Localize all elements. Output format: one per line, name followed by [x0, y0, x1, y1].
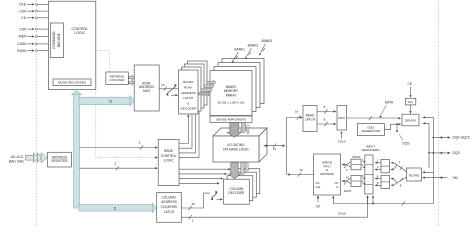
input pin CAS# — [17, 42, 48, 46]
memory bank label BANK1 — [232, 48, 245, 63]
svg-text:(8,192 x 1,024 x 16): (8,192 x 1,024 x 16) — [218, 101, 245, 105]
dotted control line to refresh counter — [96, 51, 110, 72]
command decode block — [50, 23, 63, 58]
pad DM — [422, 176, 458, 180]
svg-text:CONTROL: CONTROL — [161, 154, 177, 158]
mask wire to write fifo — [342, 155, 361, 172]
svg-text:BANK1: BANK1 — [234, 48, 245, 52]
write fifo dqs in arrow — [332, 196, 335, 204]
svg-text:BANK0: BANK0 — [183, 80, 193, 84]
svg-text:1: 1 — [192, 219, 194, 223]
input pin CK — [21, 16, 48, 20]
svg-text:ADDRESS: ADDRESS — [181, 91, 196, 95]
svg-text:DLL: DLL — [408, 100, 414, 104]
dqs generator to drvrs wire — [384, 123, 401, 130]
svg-text:BANK2: BANK2 — [248, 44, 259, 48]
address input fat arrow — [26, 153, 48, 163]
input pin RAS# — [17, 49, 48, 53]
svg-text:GENERATOR: GENERATOR — [361, 129, 381, 133]
write latch box upper — [351, 159, 361, 170]
svg-text:DECODER: DECODER — [228, 191, 245, 195]
bank0 row-address latch and decoder stack — [179, 61, 208, 114]
svg-text:16: 16 — [295, 110, 299, 114]
input registers stack — [365, 155, 373, 194]
svg-text:REGISTER: REGISTER — [51, 159, 68, 163]
bank0 memory array stack — [210, 59, 264, 116]
input latch box lower — [381, 175, 390, 188]
input pin WE# — [19, 35, 49, 39]
svg-text:MUX: MUX — [143, 89, 151, 93]
pad DQS — [429, 151, 460, 155]
io gating to read latch wire 16 — [264, 110, 303, 151]
input register right wires — [375, 159, 381, 187]
svg-text:LOGIC: LOGIC — [75, 31, 86, 35]
ck input to write fifo — [316, 196, 321, 209]
svg-text:A0–A12,: A0–A12, — [11, 155, 24, 159]
svg-text:2: 2 — [115, 162, 117, 166]
column address counter latch block — [157, 193, 182, 223]
dqs branch to input path — [396, 123, 410, 145]
teal bus branch to row address mux — [79, 96, 134, 107]
dll block — [405, 98, 416, 105]
svg-text:BANK: BANK — [164, 149, 174, 153]
input register clock arrows — [366, 195, 374, 203]
drvrs block — [402, 114, 419, 126]
ck input label — [408, 82, 413, 98]
svg-text:16: 16 — [346, 175, 350, 179]
svg-text:REGISTERS: REGISTERS — [362, 148, 380, 152]
control logic block — [48, 1, 95, 89]
svg-text:DQ0–DQ15: DQ0–DQ15 — [453, 136, 470, 140]
dqs generator block — [357, 124, 384, 136]
bank select wire 2 to column decoder stack — [179, 177, 223, 179]
svg-text:CS#: CS# — [19, 27, 26, 31]
rcvrs block — [407, 168, 422, 181]
row address mux block — [134, 65, 159, 111]
refresh counter block — [106, 72, 129, 84]
svg-text:BANK3: BANK3 — [262, 39, 273, 43]
dll to drvrs arrow — [409, 105, 411, 114]
left chip-boundary dashed pin line — [35, 0, 37, 227]
svg-text:11: 11 — [113, 206, 117, 210]
svg-text:Out: Out — [316, 185, 321, 189]
bank control logic block — [158, 140, 179, 186]
write latch box lower — [351, 176, 361, 187]
svg-text:MODE REGISTERS: MODE REGISTERS — [58, 81, 86, 85]
bank select wire 0 to column decoder stack — [179, 168, 231, 170]
sense amplifiers block — [210, 116, 252, 122]
write fifo and drivers block — [314, 154, 341, 195]
svg-text:DRVRS: DRVRS — [405, 119, 416, 123]
drvrs output stub to dq pads — [423, 116, 434, 137]
input registers left wires — [362, 158, 365, 185]
teal bus arrow into mode registers — [72, 91, 82, 95]
svg-text:LATCH: LATCH — [164, 210, 175, 214]
svg-text:DQS: DQS — [453, 151, 461, 155]
read latch to mux wires 8 8 — [317, 105, 336, 126]
bank select wire 1 to column decoder stack — [179, 173, 227, 175]
svg-text:LATCH: LATCH — [305, 118, 316, 122]
teal address bus vertical — [73, 94, 79, 209]
svg-text:COMMAND: COMMAND — [52, 31, 56, 49]
svg-text:LOGIC: LOGIC — [164, 159, 175, 163]
svg-text:COL0: COL0 — [338, 140, 346, 144]
svg-text:COL0: COL0 — [338, 211, 346, 215]
dq vertical line to rcvrs — [422, 137, 434, 204]
svg-text:DM MASK LOGIC: DM MASK LOGIC — [223, 147, 249, 151]
dotted control line to bank control logic — [96, 90, 158, 159]
svg-text:ARRAY: ARRAY — [226, 94, 238, 98]
input latch box upper — [381, 160, 390, 173]
mux block — [337, 106, 347, 131]
right chip-boundary dashed pin line — [438, 0, 440, 227]
svg-text:COLUMN-: COLUMN- — [162, 195, 177, 199]
column decoder stack — [224, 169, 260, 205]
sense amps to io gating gray arrows — [227, 122, 250, 137]
mode registers block — [53, 79, 91, 86]
refresh counter to row mux arrows — [129, 75, 135, 85]
bank address wire 2 upper — [80, 141, 158, 150]
bank select wire 0 to row latch stack — [179, 114, 190, 143]
svg-text:COUNTER/: COUNTER/ — [161, 205, 178, 209]
address input label A0-A12 BA0 BA1 — [9, 155, 24, 164]
latch to memory array gray arrows — [198, 80, 216, 96]
memory bank label BANK2 — [245, 44, 258, 59]
bank select wire 2 to row latch stack — [179, 108, 196, 153]
input pin CK# — [19, 9, 48, 13]
svg-text:in: in — [336, 185, 339, 189]
bank select wire 3 to row latch stack — [179, 105, 199, 158]
mux col0 select stub — [338, 131, 346, 144]
svg-text:CAS#: CAS# — [17, 42, 26, 46]
svg-text:DATA: DATA — [385, 100, 394, 104]
svg-text:CKE: CKE — [19, 3, 27, 7]
io gating dm mask logic block — [213, 128, 267, 162]
svg-text:10: 10 — [192, 202, 196, 206]
write fifo to io gating wire 16 — [287, 146, 314, 177]
svg-text:WE#: WE# — [19, 35, 26, 39]
svg-text:RCVRS: RCVRS — [409, 173, 420, 177]
pad DQ0-DQ15 — [433, 136, 470, 140]
svg-text:2: 2 — [139, 141, 141, 145]
input registers label — [362, 144, 380, 152]
svg-text:DECODE: DECODE — [57, 32, 61, 47]
address register block — [48, 152, 72, 167]
svg-text:COUNTER: COUNTER — [109, 78, 125, 82]
svg-text:BA0, BA1: BA0, BA1 — [9, 159, 24, 163]
svg-text:RAS#: RAS# — [17, 49, 26, 53]
svg-text:CK#: CK# — [19, 9, 26, 13]
svg-text:BANK0: BANK0 — [226, 85, 237, 89]
memory bank label BANK3 — [259, 39, 272, 55]
svg-text:MEMORY: MEMORY — [224, 89, 239, 93]
rcvrs to lower latch wires — [391, 177, 407, 188]
bank select wire 1 to row latch stack — [179, 111, 192, 148]
svg-text:CK: CK — [21, 16, 26, 20]
read latch block — [303, 106, 317, 132]
svg-text:ADDRESS: ADDRESS — [161, 200, 176, 204]
svg-text:DECODER: DECODER — [181, 107, 197, 111]
row mux to latch wire 13 — [159, 83, 178, 97]
svg-text:DATA: DATA — [344, 189, 352, 193]
bank address wire 2 lower — [80, 162, 158, 171]
svg-text:16: 16 — [300, 168, 304, 172]
svg-text:13: 13 — [161, 83, 165, 87]
bank select wire 3 to column decoder stack — [179, 182, 220, 184]
svg-text:MASK: MASK — [352, 155, 361, 159]
data wire to write fifo — [342, 175, 351, 193]
svg-text:13: 13 — [109, 100, 113, 104]
svg-text:SENSE AMPLIFIERS: SENSE AMPLIFIERS — [216, 118, 246, 122]
svg-text:16: 16 — [273, 147, 277, 151]
svg-text:DM: DM — [453, 176, 458, 180]
svg-text:LATCH: LATCH — [183, 96, 193, 100]
rcvrs to upper latch wires — [391, 160, 407, 172]
svg-text:ROW-: ROW- — [184, 86, 193, 90]
svg-text:MUX: MUX — [338, 116, 345, 120]
dqs clock line bottom — [333, 201, 433, 205]
drvrs output stub to dqs pad — [423, 122, 429, 153]
mux to drvrs data wire — [347, 100, 402, 120]
svg-text:DRIVERS: DRIVERS — [320, 172, 334, 176]
io gating to column decoder gray arrows — [229, 162, 250, 178]
column latch to column decoder wire 10 — [181, 191, 223, 210]
col0 wire from column latch — [181, 196, 367, 223]
dqs vertical line to rcvrs — [428, 152, 430, 168]
input pin CKE — [19, 3, 48, 7]
svg-text:DQS: DQS — [403, 142, 410, 146]
teal bus branch to column address latch — [79, 203, 157, 213]
input pin CS# — [19, 27, 48, 31]
